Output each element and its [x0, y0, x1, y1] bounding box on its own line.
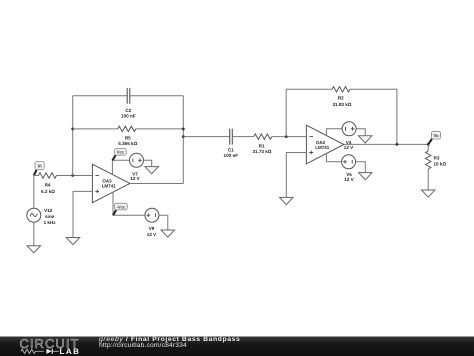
junction vertical/R5	[182, 127, 185, 130]
resistor R2	[332, 87, 352, 107]
ground at V5	[359, 173, 372, 180]
svg-text:LM741: LM741	[102, 183, 117, 188]
wire R3 to ground	[427, 169, 429, 190]
svg-text:C2: C2	[125, 108, 131, 113]
wire Vi to V12	[33, 176, 35, 209]
node Vo	[428, 131, 440, 144]
resistor R3	[426, 151, 447, 169]
wire OA3 output	[130, 182, 183, 184]
junction feedback/R4	[71, 174, 74, 177]
svg-text:Vcc: Vcc	[117, 150, 125, 155]
wire to C1	[183, 136, 229, 138]
junction R5 left	[71, 127, 74, 130]
svg-text:R5: R5	[125, 136, 131, 141]
svg-text:R2: R2	[338, 96, 344, 101]
svg-text:6.366 kΩ: 6.366 kΩ	[118, 141, 137, 146]
svg-text:12 V: 12 V	[344, 177, 354, 182]
svg-text:R4: R4	[45, 182, 51, 187]
junction vertical/C1 branch	[182, 135, 185, 138]
source V5	[342, 155, 356, 182]
svg-text:V8: V8	[149, 226, 155, 231]
svg-text:R3: R3	[434, 156, 440, 161]
wire OA2 plus input to ground	[286, 153, 306, 198]
resistor R4	[39, 173, 57, 194]
svg-text:31.83 kΩ: 31.83 kΩ	[332, 102, 351, 107]
ground at OA2 plus	[280, 197, 293, 204]
svg-text:Vi: Vi	[38, 163, 42, 168]
node Vi	[34, 161, 44, 175]
wire C2 top	[73, 95, 184, 97]
svg-text:1 kHz: 1 kHz	[44, 220, 57, 225]
wire OA3 V+ pin	[112, 160, 129, 174]
wire OA3 V- pin	[113, 192, 145, 215]
ground at V4	[359, 136, 372, 143]
svg-text:Vo: Vo	[433, 133, 439, 138]
resistor R5	[118, 126, 138, 146]
wire R1 to OA2 minus	[272, 136, 307, 138]
wire OA3 plus input to ground	[73, 191, 92, 237]
svg-text:6.2 kΩ: 6.2 kΩ	[41, 189, 55, 194]
svg-text:V12: V12	[44, 208, 53, 213]
op-amp OA2	[306, 125, 344, 164]
ground at OA3 plus	[66, 238, 79, 245]
ground below V12	[27, 246, 40, 253]
capacitor C1	[224, 129, 239, 159]
wire V5 to ground	[356, 162, 366, 173]
wire right vertical of stage 1	[182, 96, 184, 184]
svg-text:LAB: LAB	[60, 346, 81, 355]
wire OA2 output	[344, 143, 428, 145]
wire Vo to R3	[427, 144, 429, 151]
svg-text:100 nF: 100 nF	[224, 153, 239, 158]
wire Vi node to op-amp minus with R4	[34, 175, 93, 177]
svg-text:sine: sine	[45, 214, 55, 219]
wire V12 to ground	[33, 222, 35, 246]
capacitor C2	[121, 88, 136, 119]
wire V7 to ground	[144, 160, 152, 166]
source V8	[145, 208, 159, 237]
ground at V7	[145, 167, 158, 174]
svg-text:LM741: LM741	[315, 145, 330, 150]
ground at R3	[422, 190, 435, 197]
wire R5 row	[73, 128, 184, 130]
wire C1 to R1	[232, 136, 254, 138]
svg-text:10 kΩ: 10 kΩ	[434, 162, 447, 167]
wire R2 feedback loop	[286, 89, 397, 144]
svg-text:12 V: 12 V	[130, 176, 140, 181]
source V4	[342, 122, 356, 150]
wire feedback left vertical	[72, 96, 74, 176]
CircuitLab logo	[0, 337, 92, 356]
svg-text:C1: C1	[228, 148, 234, 153]
footer bar	[0, 336, 474, 356]
junction Vo	[427, 143, 430, 146]
node Vcc	[112, 149, 126, 161]
svg-text:12 V: 12 V	[344, 145, 354, 150]
wire V4 to ground	[356, 129, 365, 136]
op-amp OA3	[92, 164, 129, 203]
resistor R1	[252, 134, 271, 154]
svg-text:12 V: 12 V	[147, 232, 157, 237]
svg-text:-Vcc: -Vcc	[116, 204, 126, 209]
svg-text:100 nF: 100 nF	[121, 114, 136, 119]
wire V8 to ground	[159, 215, 168, 230]
wire OA2 V+ pin	[326, 129, 342, 136]
ground at V8	[161, 230, 174, 237]
source V12	[27, 208, 56, 225]
junction R2 right vertical	[396, 143, 399, 146]
junction R2 left vertical	[285, 135, 288, 138]
svg-text:R1: R1	[259, 143, 265, 148]
wire OA2 V- pin	[326, 153, 341, 162]
source V7	[130, 153, 144, 181]
svg-text:31.73 kΩ: 31.73 kΩ	[252, 149, 271, 154]
node -Vcc	[113, 203, 127, 215]
